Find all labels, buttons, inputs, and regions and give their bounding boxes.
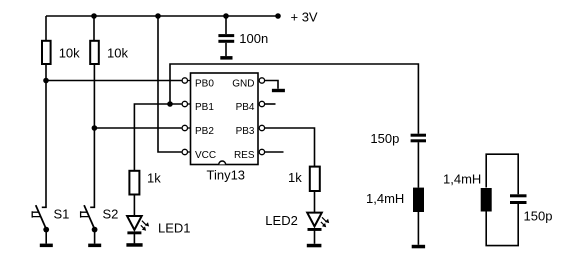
svg-text:10k: 10k bbox=[107, 45, 128, 60]
pin GND bbox=[232, 78, 264, 90]
resistor R3 1k bbox=[129, 171, 161, 195]
wire PB0 to left rail bbox=[46, 80, 182, 82]
svg-text:S2: S2 bbox=[103, 207, 119, 222]
inductor L1 1,4mH (tank A) bbox=[366, 188, 424, 212]
svg-text:Tiny13: Tiny13 bbox=[207, 168, 246, 183]
node junction +3V at 100n bbox=[223, 13, 229, 19]
node junction PB0/left rail bbox=[43, 78, 49, 84]
svg-text:PB3: PB3 bbox=[236, 126, 255, 137]
resistor R2 10k bbox=[90, 41, 128, 64]
capacitor C2 150p (tank A) bbox=[370, 131, 426, 146]
svg-text:1,4mH: 1,4mH bbox=[443, 172, 481, 187]
pin PB0 bbox=[182, 78, 214, 90]
svg-text:GND: GND bbox=[232, 78, 254, 89]
wire tank A coil to ground bbox=[417, 212, 419, 245]
node junction +3V at VCC rail bbox=[155, 13, 161, 19]
node junction +3V at rail2 bbox=[91, 13, 97, 19]
switch S2 bbox=[81, 205, 119, 247]
switch S1 bbox=[32, 205, 69, 247]
wire GND pin to ground bbox=[265, 81, 278, 89]
ground at GND pin bbox=[272, 89, 285, 92]
pin VCC bbox=[182, 149, 216, 161]
svg-text:1,4mH: 1,4mH bbox=[366, 191, 404, 206]
svg-text:1k: 1k bbox=[288, 170, 302, 185]
svg-text:150p: 150p bbox=[524, 209, 553, 224]
wire top +3V rail bbox=[46, 15, 278, 17]
svg-text:PB4: PB4 bbox=[236, 102, 255, 113]
svg-text:RES: RES bbox=[234, 150, 255, 161]
svg-text:100n: 100n bbox=[239, 31, 268, 46]
pin PB3 bbox=[236, 125, 265, 137]
wire PB2 to rail2 bbox=[94, 127, 181, 129]
pin RES bbox=[234, 149, 265, 161]
resistor R1 10k bbox=[42, 41, 80, 64]
wire PB1 junction up and right to tank branch bbox=[170, 64, 418, 134]
wire 100n top lead bbox=[225, 16, 227, 34]
wire RES stub bbox=[265, 151, 284, 153]
wire left rail lower (R1 bottom to S1) bbox=[42, 64, 46, 207]
wire left rail upper (to R1 top) bbox=[45, 16, 47, 41]
ground under 100n bbox=[220, 56, 232, 60]
svg-text:LED1: LED1 bbox=[158, 221, 191, 236]
svg-text:150p: 150p bbox=[370, 131, 399, 146]
pin PB1 bbox=[182, 101, 214, 113]
wire R3 1k to LED1 bbox=[133, 195, 135, 217]
svg-text:PB1: PB1 bbox=[195, 102, 214, 113]
wire 100n bottom lead bbox=[225, 43, 227, 56]
svg-text:+ 3V: + 3V bbox=[291, 9, 318, 24]
node junction PB2/rail2 bbox=[92, 125, 98, 131]
capacitor C3 150p (tank B) bbox=[510, 194, 552, 223]
LED1 bbox=[126, 216, 190, 247]
wire rail2 lower (R2 bottom to S2) bbox=[90, 64, 94, 207]
inductor L2 1,4mH (tank B) bbox=[443, 172, 492, 212]
ground under tank A bbox=[412, 245, 425, 249]
svg-text:S1: S1 bbox=[54, 207, 70, 222]
LED2 bbox=[265, 213, 329, 248]
wire R4 1k to LED2 bbox=[314, 191, 316, 213]
wire PB4 stub bbox=[265, 103, 276, 105]
wire LED2 to ground bbox=[314, 230, 316, 244]
wire tank A cap to coil bbox=[417, 142, 419, 187]
pin PB2 bbox=[182, 125, 214, 137]
svg-text:10k: 10k bbox=[59, 45, 80, 60]
capacitor C1 100n bbox=[218, 31, 268, 46]
op-amp U1 Tiny13 body bbox=[191, 73, 259, 183]
resistor R4 1k bbox=[288, 167, 320, 191]
wire tank B loop bbox=[486, 154, 518, 245]
svg-text:PB0: PB0 bbox=[195, 78, 214, 89]
wire PB3 to LED2 branch bbox=[265, 128, 315, 167]
svg-text:VCC: VCC bbox=[195, 150, 216, 161]
wire PB1 to LED1 branch corner bbox=[134, 104, 181, 171]
svg-text:1k: 1k bbox=[147, 171, 161, 186]
wire rail2 upper (to R2 top) bbox=[93, 16, 95, 41]
wire VCC rail from +3V bbox=[158, 16, 182, 152]
svg-text:PB2: PB2 bbox=[195, 126, 214, 137]
svg-text:LED2: LED2 bbox=[265, 213, 298, 228]
wire LED1 to ground bbox=[133, 233, 135, 243]
node junction PB1/tank wire bbox=[167, 101, 173, 107]
node +3V terminal dot bbox=[275, 13, 281, 19]
pin PB4 bbox=[236, 101, 265, 113]
